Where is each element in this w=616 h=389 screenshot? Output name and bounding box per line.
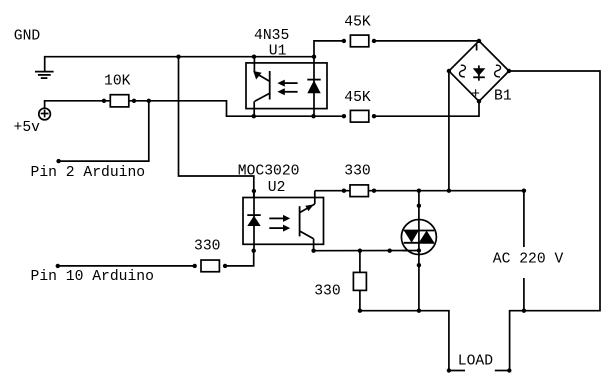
node 330-t left — [342, 189, 346, 193]
node 330-t right — [372, 189, 376, 193]
resistor 10K — [110, 95, 129, 107]
node U2 cathode pin — [252, 249, 256, 253]
node triac pin bottom — [417, 263, 421, 267]
node pin2 tap — [147, 99, 151, 103]
wire 45K-t to bridge top — [374, 40, 479, 42]
bridge B1 — [449, 41, 509, 101]
label + — [471, 87, 480, 103]
node pin10 terminal — [56, 264, 60, 268]
svg-text:+: + — [471, 87, 480, 103]
node bridge right — [507, 69, 511, 73]
node bridge left — [447, 69, 451, 73]
label 330 vertical — [314, 284, 340, 300]
node gate at triac — [417, 248, 421, 252]
label Pin 10 Arduino — [31, 269, 154, 285]
label B1 — [494, 89, 512, 105]
svg-text:10K: 10K — [104, 74, 131, 90]
wire Pin 2 — [59, 101, 149, 161]
node U2 anode pin — [252, 189, 256, 193]
svg-text:330: 330 — [344, 164, 370, 180]
resistor 45K bottom — [350, 110, 368, 122]
svg-text:45K: 45K — [344, 90, 371, 106]
wire Pin 10 — [58, 265, 195, 267]
resistor 45K top — [350, 35, 368, 47]
resistor 330 pin10 — [201, 260, 219, 272]
label 45K top — [344, 14, 371, 30]
node 45K-b right — [372, 114, 376, 118]
node load left — [447, 368, 451, 372]
wire U2 collector to 330 row — [315, 190, 524, 192]
transistor U2 output — [300, 191, 315, 251]
wire bottom rail — [360, 311, 449, 371]
svg-text:330: 330 — [194, 239, 220, 255]
label 45K bottom — [344, 90, 371, 106]
node 330-v top — [358, 249, 362, 253]
node U2 emitter pin — [311, 249, 315, 253]
svg-text:330: 330 — [314, 284, 340, 300]
node 10K right — [132, 99, 136, 103]
node 330-p left — [193, 264, 197, 268]
light arrows U2 — [269, 215, 290, 232]
svg-text:AC 220 V: AC 220 V — [493, 251, 564, 267]
node AC bottom — [522, 309, 526, 313]
label MOC3020 — [238, 163, 300, 179]
svg-text:GND: GND — [14, 29, 41, 45]
label 10K — [104, 74, 131, 90]
wire 45K-top row — [314, 41, 344, 57]
optocoupler U2 MOC3020 box — [243, 198, 324, 245]
wire AC source bottom lead — [523, 278, 525, 311]
svg-text:Pin 2 Arduino: Pin 2 Arduino — [31, 165, 146, 181]
wire load right stub — [495, 370, 510, 372]
wire AC source top lead — [523, 191, 525, 247]
node AC tap — [522, 189, 526, 193]
svg-text:MOC3020: MOC3020 — [238, 163, 300, 179]
wire 330-v branch — [359, 251, 361, 311]
node triac pin top — [417, 204, 421, 208]
label LOAD — [458, 353, 493, 369]
triac Q1 — [401, 191, 436, 311]
svg-text:+5v: +5v — [14, 120, 41, 136]
diode LED U1 — [307, 57, 320, 116]
label Pin 2 Arduino — [31, 165, 146, 181]
label +5v — [14, 120, 41, 136]
svg-text:LOAD: LOAD — [458, 353, 493, 369]
node U1 anode bottom — [311, 114, 315, 118]
label GND — [14, 29, 41, 45]
label 4N35 — [254, 28, 289, 44]
light arrows U1 — [277, 80, 297, 96]
ground — [35, 72, 54, 79]
resistor 330 top — [350, 185, 368, 197]
transistor U1 phototransistor — [253, 57, 270, 116]
label 330 pin10 — [194, 239, 220, 255]
node U1 emitter bottom — [252, 114, 256, 118]
svg-text:Pin 10 Arduino: Pin 10 Arduino — [31, 269, 154, 285]
node 45K-t left — [342, 39, 346, 43]
node 10K left — [102, 99, 106, 103]
wire gate row — [314, 250, 419, 252]
node bridge bottom — [477, 99, 481, 103]
wire GND top rail — [45, 57, 314, 72]
node load right — [507, 368, 511, 372]
wire load left stub — [449, 370, 465, 372]
node gate mid — [388, 249, 392, 253]
wire 45K-b to bridge + — [374, 101, 479, 116]
label 330 top — [344, 164, 370, 180]
diode LED U2 — [247, 192, 260, 251]
node U1 anode top / 45K tap — [312, 55, 316, 59]
svg-text:B1: B1 — [494, 89, 512, 105]
wire 330 to U2 cathode — [225, 251, 254, 266]
node gate junction inside — [417, 248, 421, 252]
resistor 330 vertical — [353, 272, 366, 290]
svg-text:U2: U2 — [268, 180, 286, 196]
label AC 220 V — [493, 251, 564, 267]
wire bridge left drop — [448, 71, 450, 191]
node 330-v bottom — [358, 309, 362, 313]
optocoupler U1 4N35 box — [246, 63, 327, 109]
svg-text:4N35: 4N35 — [254, 28, 289, 44]
source +5v — [39, 108, 51, 120]
svg-text:45K: 45K — [344, 14, 371, 30]
node 45K-t right — [372, 39, 376, 43]
node U1 pin cathode top — [252, 55, 256, 59]
node pin2 terminal — [56, 159, 60, 163]
node bridge top — [477, 39, 481, 43]
node 330-p right — [223, 264, 227, 268]
node triac on bottom rail — [417, 309, 421, 313]
node triac top tap — [417, 189, 421, 193]
svg-text:U1: U1 — [269, 43, 287, 59]
label U1 — [269, 43, 287, 59]
wire GND drop to U2 — [179, 57, 254, 197]
wire +5v rail — [45, 101, 344, 116]
label U2 — [268, 180, 286, 196]
node on GND rail at x=178 — [176, 55, 180, 59]
node 45K-b left — [342, 114, 346, 118]
node bridge-left join — [447, 189, 451, 193]
wire bridge right loop — [509, 71, 600, 371]
